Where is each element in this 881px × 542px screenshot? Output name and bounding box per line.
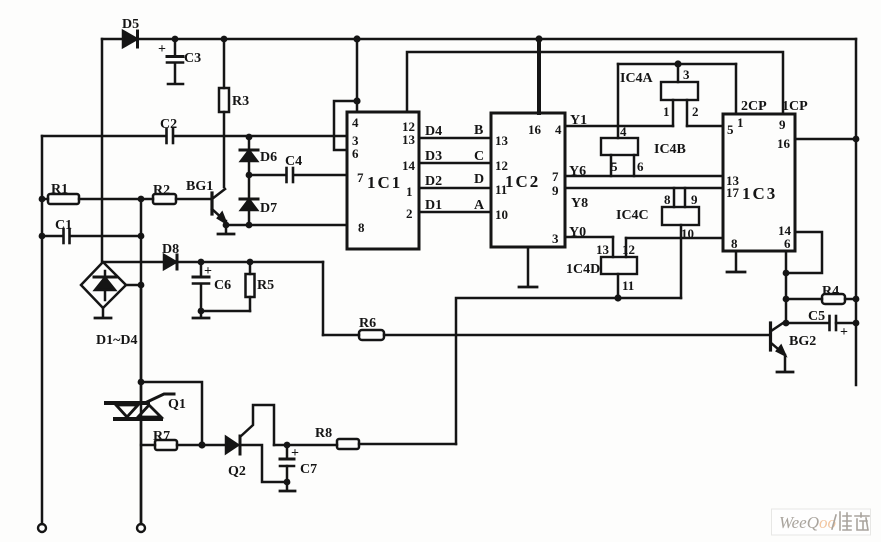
svg-text:Y6: Y6 [569,164,586,179]
IC4B pin labels [611,124,644,174]
svg-text:R1: R1 [51,182,68,197]
ground at IC2 [519,247,537,287]
wire IC1 pins 3/4 to top rail [334,39,357,150]
wire Y6 IC2.7 to IC4B.5/6 to IC3.13 [565,175,723,178]
wire IC3 pin16 to right rail [795,138,856,141]
svg-text:D6: D6 [260,150,277,165]
resistor R4 [786,294,856,304]
svg-text:D8: D8 [162,242,179,257]
capacitor C5 [786,316,856,330]
wire IC4C.10 to IC4D.12 and IC3 [626,238,723,257]
svg-text:R3: R3 [232,94,249,109]
svg-text:D3: D3 [425,149,442,164]
svg-text:3: 3 [683,67,690,82]
wire Y1 branch to IC4B.4 and IC4A frame left [617,64,620,138]
svg-text:D2: D2 [425,174,442,189]
IC3 box [723,114,795,251]
IC1 pin labels [352,115,416,235]
svg-text:5: 5 [727,122,734,137]
svg-text:BG2: BG2 [789,334,816,349]
diode D8 [103,255,323,269]
svg-text:7: 7 [357,170,364,185]
svg-text:Q1: Q1 [168,397,186,412]
labels Y1 Y6 Y8 Y0 [569,113,588,240]
svg-text:2: 2 [406,206,413,221]
wire top supply rail left of D5 [102,38,123,41]
diode D5 [123,31,138,47]
wire R8 up to IC4D pin11 node [456,298,681,444]
IC4D pin labels [596,242,635,293]
svg-text:2: 2 [692,104,699,119]
svg-text:A: A [474,198,485,213]
labels D4 D3 D2 D1 [425,124,442,213]
wire IC3 pin14 loop to pin6 node [786,232,822,273]
op IC1 box [347,112,419,249]
svg-text:IC4A: IC4A [620,71,654,86]
svg-text:+: + [158,42,166,57]
svg-text:IC4C: IC4C [616,208,649,223]
capacitor C6 [193,262,209,311]
svg-text:R5: R5 [257,278,274,293]
IC3 pin labels [726,115,792,251]
svg-text:1: 1 [663,104,670,119]
resistor R1 [42,194,153,204]
wire BG1 emitter to IC1 pin 8 [226,224,347,227]
resistor R7 [141,440,202,450]
ground at bridge bottom [95,308,111,318]
svg-text:16: 16 [777,136,791,151]
svg-text:1C4D: 1C4D [566,262,600,277]
wire IC2 pin16 supply stub [537,39,541,113]
svg-text:D5: D5 [122,17,139,32]
thyristor Q2 [202,405,287,482]
svg-text:R8: R8 [315,426,332,441]
svg-text:2CP: 2CP [741,99,767,114]
svg-text:8: 8 [358,220,365,235]
nand gate IC4A [618,64,736,126]
ground at C6 [193,311,209,318]
svg-text:+: + [204,264,212,279]
resistor R3 [219,39,229,187]
resistor R6 [323,330,770,340]
terminal left [38,524,46,532]
IC2 box [491,113,565,247]
wire IC3 pin6 down to BG2 collector [785,251,788,322]
wire feedback column R2/C1/bridge/Q1 [140,199,143,524]
ground at C7 [280,482,295,491]
svg-text:6: 6 [352,146,359,161]
wire left AC vertical from top rail to bridge [101,39,104,262]
watermark CJK 维库 strokes [832,512,869,530]
IC2 pin labels [495,122,562,246]
svg-text:D4: D4 [425,124,442,139]
svg-text:D1: D1 [425,198,442,213]
svg-text:13: 13 [402,132,416,147]
svg-text:1C2: 1C2 [505,172,540,191]
svg-text:C7: C7 [300,462,317,477]
svg-text:C6: C6 [214,278,231,293]
svg-text:8: 8 [731,236,738,251]
svg-text:BG1: BG1 [186,179,213,194]
svg-text:1: 1 [406,184,413,199]
svg-text:13: 13 [495,133,509,148]
svg-text:C1: C1 [55,218,72,233]
svg-text:17: 17 [726,185,740,200]
nand gate IC4D [601,257,637,298]
svg-text:12: 12 [495,158,508,173]
labels B C D A [474,123,485,213]
svg-text:1CP: 1CP [782,99,808,114]
svg-text:R4: R4 [822,284,839,299]
svg-text:R6: R6 [359,316,376,331]
transistor BG1 [212,189,226,225]
IC4C pin labels [664,192,698,241]
wire D4 bus IC1.13 to IC2.13 [419,137,491,140]
ground at BG2 emitter [777,355,793,372]
wire IC4A.3 to IC3 2CP [735,64,738,114]
watermark WeeQoo box [772,509,871,535]
svg-text:C5: C5 [808,309,825,324]
svg-text:14: 14 [402,158,416,173]
svg-text:12: 12 [622,242,635,257]
svg-text:16: 16 [528,122,542,137]
capacitor C2 [42,129,347,143]
svg-text:1: 1 [737,115,744,130]
svg-text:13: 13 [596,242,610,257]
resistor R8 [337,439,456,449]
wire D1 bus IC1.2 to IC2.10 [419,211,491,214]
svg-text:4: 4 [352,115,359,130]
svg-text:9: 9 [691,192,698,207]
svg-text:3: 3 [552,231,559,246]
nand gate IC4C [662,188,699,298]
resistor R2 [153,194,211,204]
terminal right [137,524,145,532]
capacitor C7 [274,445,337,482]
svg-text:Y0: Y0 [569,225,586,240]
svg-text:WeeQoo: WeeQoo [779,513,836,532]
svg-text:D: D [474,172,484,187]
capacitor C3 [167,39,183,84]
wire Y8 IC2.9 to IC4C.8/9 to IC3.17 [565,187,723,190]
svg-text:4: 4 [620,124,627,139]
svg-text:Q2: Q2 [228,464,246,479]
svg-text:IC4B: IC4B [654,142,686,157]
wire D2 bus IC1.1 to IC2.11 [419,187,491,190]
ground at BG1 emitter [218,225,234,234]
capacitor C1 [42,229,141,243]
svg-text:R7: R7 [153,429,170,444]
wire Q1 gate loop [141,382,202,445]
svg-text:C4: C4 [285,154,302,169]
svg-text:C3: C3 [184,51,201,66]
svg-text:10: 10 [495,207,508,222]
svg-text:10: 10 [681,226,694,241]
triac Q1 [106,285,174,524]
svg-text:1C1: 1C1 [367,173,402,192]
svg-text:C: C [474,149,484,164]
ground at IC3 pin 8 [727,251,745,272]
svg-text:D7: D7 [260,201,277,216]
IC4A pin labels [663,67,699,119]
svg-text:+: + [840,325,848,340]
svg-text:R2: R2 [153,183,170,198]
svg-text:6: 6 [637,159,644,174]
svg-text:1C3: 1C3 [742,184,777,203]
svg-text:Y1: Y1 [570,113,587,128]
wire right vertical rail [855,39,858,385]
nand gate IC4B [601,138,638,176]
wire top supply rail D5 to right corner [137,38,856,41]
wire Y1 IC2.4 to IC4A.1 [565,125,673,128]
svg-text:11: 11 [622,278,634,293]
resistor R5 [201,262,255,311]
svg-text:D1~D4: D1~D4 [96,333,138,348]
diode D7 [240,175,258,225]
svg-text:9: 9 [779,117,786,132]
svg-text:6: 6 [784,236,791,251]
wire D8 node down to R6 [322,262,325,335]
wire left input column [41,136,44,524]
bridge rectifier D1~D4 [81,262,141,308]
svg-text:7: 7 [552,169,559,184]
wire Y0 IC2.3 to IC4D.13 [565,237,613,257]
diode D6 [240,136,258,175]
capacitor C4 [249,168,347,182]
svg-text:4: 4 [555,122,562,137]
wire clock rail IC1 pin12 to IC3 1CP [407,52,783,114]
svg-text:+: + [291,446,299,461]
svg-text:B: B [474,123,483,138]
svg-text:9: 9 [552,183,559,198]
svg-text:8: 8 [664,192,671,207]
wire D3 bus IC1.14 to IC2.12 [419,162,491,165]
svg-text:C2: C2 [160,117,177,132]
transistor BG2 [771,321,787,355]
svg-text:5: 5 [611,159,618,174]
svg-text:Y8: Y8 [571,196,588,211]
